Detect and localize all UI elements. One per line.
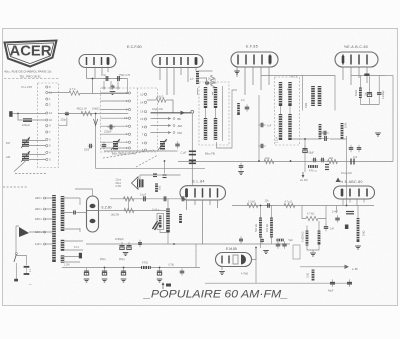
- wire det leg c: [378, 76, 380, 105]
- tuner block pin 4 column A: [126, 140, 131, 144]
- resistor 4.7uF: [284, 203, 295, 207]
- wire mains lead: [15, 226, 17, 253]
- junction circle thick line end: [191, 110, 194, 113]
- wire antenna to switch pin 12: [13, 113, 46, 115]
- wire top pins up: [104, 81, 118, 87]
- wire triode pin leads: [87, 67, 109, 79]
- resistor IF decoupling: [237, 103, 240, 115]
- capacitor heater mid tap: [72, 211, 77, 215]
- capacitor filter 50uF a: [119, 242, 124, 250]
- junction B+ 1: [258, 160, 260, 162]
- wire AF caps bus: [261, 206, 272, 249]
- capacitor 50uF b: [121, 268, 126, 276]
- wire choke top: [167, 199, 169, 209]
- tuner box top pin c: [117, 87, 119, 89]
- wire can to bus: [160, 230, 168, 233]
- circle BF node: [173, 118, 175, 120]
- wire screen vertical: [258, 95, 260, 161]
- potentiometer 1M tone: [357, 218, 360, 242]
- capacitor det pair b: [320, 158, 326, 163]
- mains plug blob: [14, 279, 18, 282]
- resistor 2.2k AF: [247, 203, 258, 207]
- tuner block pin 5 column B: [142, 148, 147, 152]
- wire EM85 node down: [255, 248, 257, 284]
- tuner block pin 15 column B: [140, 117, 146, 121]
- junction bottom 2: [123, 267, 125, 269]
- thick bar EABC80 det: [342, 56, 345, 63]
- capacitor 5uF cathode: [84, 268, 89, 276]
- tuner block pin 16 column B: [140, 110, 146, 114]
- IF T2 secondary coil lower: [288, 114, 291, 140]
- wire EF85 pins down: [237, 68, 269, 96]
- thick bar EL84: [185, 189, 188, 197]
- tube V5 EZ80 rectifier: [87, 196, 99, 232]
- wire det vertical: [304, 139, 306, 172]
- resistor EM85 series: [277, 239, 285, 242]
- resistor 1M grid: [312, 270, 315, 281]
- tuner block dashed outline: [101, 88, 158, 152]
- capacitor OT node dark: [153, 174, 157, 177]
- capacitor EM85 b: [260, 237, 264, 245]
- resistor 1k 2W filter: [124, 208, 134, 212]
- capacitor 22nF AF: [335, 215, 340, 223]
- coil L1 antenna 100uH: [23, 118, 32, 122]
- wire tuner block feed y142.2: [101, 141, 129, 143]
- ground AF divider: [310, 253, 316, 256]
- ground EM85: [219, 272, 225, 275]
- wire right edge vertical: [392, 76, 394, 162]
- wire pentode to IF T1: [196, 78, 207, 85]
- capacitor 1nF pair A: [349, 145, 354, 153]
- dashed slant under tuner block 2: [136, 155, 158, 167]
- capacitor cathode bypass 2: [161, 196, 169, 201]
- resistor 5.6 ohm: [156, 98, 166, 102]
- wire heater bus: [86, 243, 196, 245]
- wire pin to 5.6 ohm: [147, 99, 156, 101]
- switch S1 pin 7: [46, 130, 51, 134]
- fuse symbol dark: [19, 227, 29, 237]
- ground 1M pot: [355, 246, 361, 249]
- wire main AM line: [58, 113, 128, 115]
- tube V2 EF85 IF amplifier: [231, 52, 278, 67]
- arrow output FM: [151, 131, 172, 134]
- capacitor 220uF block: [107, 125, 115, 130]
- resistor 100k mid: [319, 124, 322, 139]
- resistor EL84 cathode bar: [179, 214, 182, 223]
- arrow above title: [162, 283, 164, 289]
- junction main line: [95, 113, 97, 115]
- wire IF T1 inner link: [206, 86, 223, 141]
- ACER logo: [5, 41, 57, 67]
- tuner block pin 14 column B: [140, 100, 146, 104]
- wire pentode top link: [198, 71, 213, 95]
- switch S1 pin 4: [46, 151, 51, 155]
- wire B+ rail: [178, 161, 393, 163]
- wire IF1 to EF85 grid: [217, 90, 238, 148]
- capacitor 50pF dark: [346, 212, 354, 214]
- wire IF feed line thick: [151, 112, 192, 114]
- thick bar EABC80 AF: [341, 189, 344, 196]
- wire EF85 plate right: [261, 75, 303, 77]
- ground under pots: [263, 251, 269, 254]
- IF transformer T2 dashed box: [275, 77, 300, 145]
- power transformer heater winding 1: [61, 240, 65, 251]
- wire tuner block feed y126.2: [101, 125, 129, 127]
- tuner block pin 5 column A: [126, 108, 131, 112]
- tube V3b EABC80 AF triode: [334, 186, 375, 199]
- dashed chassis line left 2: [3, 186, 27, 188]
- switch S1 pin 2: [46, 103, 51, 107]
- capacitor near EL84 left dark: [163, 175, 167, 178]
- ground under triode: [110, 92, 116, 95]
- resistor 45ohm: [81, 111, 92, 115]
- electrolytic can outline: [157, 214, 164, 230]
- junction bottom 3: [159, 267, 161, 269]
- switch S1 pin 1: [46, 97, 51, 101]
- coil L3 AM antenna: [22, 154, 29, 162]
- resistor det series: [308, 165, 318, 168]
- wire transformer tap 240 v: [46, 197, 53, 199]
- switch S1 pin 5: [46, 144, 51, 148]
- capacitor tuner bypass 2: [175, 141, 180, 149]
- capacitor IF decoupling: [245, 104, 250, 112]
- terminal circle tap 180 v: [44, 218, 46, 220]
- wire transformer tap 120 v: [46, 231, 53, 233]
- wire pin 11 to R 2.7k: [48, 92, 69, 94]
- IF T1 primary coil lower: [204, 118, 207, 140]
- wire antenna drop to coil: [18, 114, 23, 121]
- switch S1 pin 6: [46, 138, 51, 142]
- electrolytic can stripes: [159, 216, 162, 228]
- capacitor 220uF det: [322, 136, 330, 141]
- capacitor 50uF a: [102, 268, 107, 276]
- circle FM node: [173, 132, 175, 134]
- capacitor 40nF bottom a: [330, 279, 335, 287]
- junction AF row 1: [346, 205, 348, 207]
- wire EM85 cathode down: [221, 267, 223, 271]
- junction B+ 2: [290, 160, 292, 162]
- power transformer HV secondary: [61, 196, 65, 231]
- arrow trimmer 2: [158, 139, 167, 150]
- trimmer dark component: [113, 141, 118, 150]
- wire transformer tap 180 v: [46, 218, 53, 220]
- logo phone line: [4, 78, 59, 80]
- junction triode cathode: [92, 78, 94, 80]
- capacitor x346 blob: [345, 225, 349, 230]
- wire EM85 top bus: [196, 243, 290, 245]
- junction screen rail: [164, 160, 166, 162]
- junction bottom 1: [104, 267, 106, 269]
- wire tuner solid left edge: [96, 114, 205, 169]
- wire EZ80 top to transformer: [75, 189, 93, 196]
- tuner block pin 7 column A: [126, 124, 131, 128]
- wire IF T1 top link: [207, 82, 217, 84]
- wire detector feed vertical: [191, 113, 193, 186]
- ratio detector coil b: [318, 86, 322, 106]
- IF T2 primary coil upper: [279, 82, 282, 106]
- capacitor 10nF out: [180, 268, 185, 276]
- wire R 2.7k to triode: [80, 79, 128, 94]
- terminal circle tap 220 v: [44, 208, 46, 210]
- switch S1 pin 10: [46, 118, 53, 122]
- tube V1a ECF80 triode section: [79, 55, 116, 68]
- resistor 50k det leg: [359, 88, 362, 99]
- antenna input terminal: [9, 111, 12, 117]
- resistor 2.7k: [69, 91, 80, 95]
- capacitor 1nF pair B: [357, 145, 362, 153]
- wire 2x500k links: [307, 221, 319, 252]
- wire AF row drop 1: [302, 206, 306, 219]
- tuner box top pin a: [103, 87, 105, 89]
- tuner block pin 6 column A: [126, 146, 131, 150]
- thick anode bar ECF80 pentode: [195, 58, 198, 65]
- diode detector V arrow: [94, 119, 98, 126]
- capacitor screen bypass 1: [258, 123, 266, 128]
- wire L2 to pin 6: [29, 141, 46, 146]
- tuner block pin 9 column A: [126, 132, 131, 136]
- switch block S1 dashed outline: [38, 83, 59, 168]
- capacitor cathode bypass: [141, 196, 149, 201]
- capacitor 40nF bottom b: [347, 279, 352, 287]
- wire screen node up to rail: [164, 161, 166, 174]
- ground rail cap: [238, 172, 244, 175]
- resistor 50ohm screen: [155, 183, 158, 192]
- tuner block pin 6 column B: [142, 141, 147, 145]
- wire choke bottom to heater bus: [167, 233, 169, 245]
- wire pentode pin leads: [160, 67, 196, 96]
- switch S1 pin 3: [46, 158, 51, 162]
- output transformer T3: [137, 179, 144, 187]
- tube V3a EABC80 detector section: [335, 52, 378, 67]
- junction EM85 node: [255, 247, 257, 249]
- resistor pentode anode load: [211, 75, 215, 88]
- capacitor tuner bypass 1: [102, 142, 107, 150]
- resistor 100k AF: [270, 218, 273, 238]
- capacitor 22nF right: [321, 131, 329, 136]
- capacitor 12k coupling: [265, 203, 273, 208]
- tuner block pin 13 column A: [124, 116, 130, 120]
- wire triode cathode row: [87, 78, 128, 80]
- capacitor filter 50uF b: [126, 242, 131, 250]
- wire transformer tap 220 v: [46, 208, 53, 210]
- ratio detector frame: [303, 76, 336, 111]
- dashed chassis line left: [15, 173, 46, 175]
- junction rail left: [191, 161, 193, 163]
- capacitor 40nF AF b: [282, 241, 287, 249]
- arrow output AM: [151, 124, 172, 127]
- arrow through L2: [21, 137, 30, 148]
- resistor 2x500k a: [306, 231, 309, 246]
- capacitor screen bypass 2: [258, 144, 266, 149]
- capacitor mains filter: [24, 267, 30, 274]
- wire tuner block feed y109.5: [101, 109, 129, 111]
- IF T2 secondary coil upper: [288, 82, 291, 106]
- wire EZ80 output right: [99, 210, 167, 212]
- tuner box top pin b: [110, 87, 112, 89]
- wire bottom right rail: [205, 282, 352, 284]
- capacitor det pair a: [312, 158, 318, 163]
- capacitor 220p padding: [65, 111, 69, 116]
- capacitor heater bypass: [138, 240, 142, 248]
- capacitor 68uF det: [302, 145, 307, 153]
- wire AF out: [300, 266, 346, 268]
- coil L2 FM antenna: [22, 140, 29, 148]
- junction heater 1: [139, 243, 141, 245]
- capacitor 47pF triode: [103, 76, 111, 81]
- wire ratio det to AF: [346, 136, 348, 206]
- ground 50uF a: [102, 279, 108, 282]
- wire det leg a: [359, 76, 361, 105]
- wire AF row drop 2: [318, 206, 326, 226]
- capacitor 470 dark: [325, 165, 329, 170]
- capacitor EM85 a: [239, 236, 243, 244]
- capacitor 0.1uF rail: [239, 163, 244, 171]
- IF transformer T1 dashed box: [199, 82, 229, 145]
- tuner block pin 10 column B: [140, 92, 146, 96]
- wire 1M pot to row: [357, 206, 359, 219]
- arrow small AF takeoff: [336, 178, 341, 183]
- wire tuner block feed y134.2: [101, 133, 129, 135]
- capacitor cathode bypass 3: [179, 196, 187, 201]
- wire det bottom link: [360, 104, 379, 106]
- tube V1b ECF80 pentode section: [152, 55, 203, 68]
- terminal circle tap 240 v: [44, 197, 46, 199]
- resistor 100k right: [341, 123, 344, 139]
- resistor 470 ohm: [141, 266, 151, 269]
- junction antenna node: [17, 113, 19, 115]
- tuner block pin 2 column A: [126, 91, 131, 95]
- arrow trimmer 1: [111, 139, 120, 150]
- wire EL84 cathode line: [110, 198, 185, 200]
- wire pin 10 to coil: [32, 119, 46, 121]
- capacitor C1 coupling dark: [189, 151, 196, 154]
- switch S1 pin 8: [46, 85, 51, 89]
- resistor screen pentode: [196, 71, 199, 84]
- capacitor to ground mid: [111, 84, 115, 90]
- wire EABC80 pins down: [343, 68, 367, 86]
- wire EL84 pins down: [187, 200, 218, 244]
- capacitor 2x16uF wedge: [153, 221, 160, 230]
- wire det top link: [351, 75, 385, 77]
- speaker symbol: [132, 177, 139, 189]
- mains switch: [15, 253, 17, 255]
- IF T1 secondary coil lower: [214, 118, 217, 140]
- potentiometer 500k volume: [259, 218, 262, 238]
- resistor 1k B+ rail 2: [328, 159, 338, 163]
- arrow through L3: [21, 151, 30, 162]
- wire fuse to transformer: [16, 226, 45, 232]
- tuner block pin 8 column B: [142, 125, 147, 129]
- capacitor bypass c: [157, 268, 162, 276]
- wire tuner block feed y148: [101, 147, 129, 149]
- ground bypass c: [157, 279, 163, 282]
- ground filter caps: [123, 253, 129, 256]
- capacitor 16uF: [367, 89, 372, 97]
- capacitor 40nF AF a: [276, 241, 281, 249]
- resistor 180ohm 1W cathode: [123, 197, 134, 201]
- dashed slant under tuner block: [103, 150, 154, 158]
- rect trimmer box right: [293, 245, 300, 259]
- tuner block dashed divider: [137, 88, 139, 152]
- component dark on det wire: [364, 74, 369, 76]
- trimmer dark component 2: [160, 141, 165, 150]
- wire switch node to cap: [16, 256, 26, 266]
- resistor 1k B+ rail: [264, 159, 274, 163]
- junction AF row 2: [260, 205, 262, 207]
- ground 50uF b: [121, 279, 127, 282]
- capacitor 2200 on left edge: [88, 144, 94, 149]
- wire L3 to pin 4: [29, 155, 46, 160]
- wire AF row: [232, 205, 374, 207]
- switch S1 pin 11: [46, 91, 53, 95]
- wire 5.6 to IF1: [166, 100, 173, 113]
- ground under EF85: [234, 71, 240, 74]
- wire transformer tap 110 v: [46, 243, 53, 245]
- wire transformer secondary taps: [65, 198, 87, 262]
- wire row down to grid line: [127, 79, 129, 94]
- ground right section: [375, 133, 381, 136]
- IF T1 secondary coil upper: [214, 87, 217, 108]
- wire EZ80 heater taps: [79, 198, 81, 232]
- tuner block pin 1 column A: [126, 99, 131, 103]
- arrow output BF: [151, 117, 172, 120]
- wire tuner bottom bus: [104, 150, 178, 152]
- capacitor on rail dark: [351, 159, 354, 165]
- capacitor 1nF AF: [324, 224, 329, 232]
- dark blob above title: [166, 284, 171, 287]
- wire OT top to node: [140, 175, 181, 179]
- wire tuner block feed y118.2: [101, 117, 129, 119]
- capacitor 75pF: [115, 76, 123, 81]
- wire IF2 out right: [292, 138, 347, 140]
- ratio detector coil a: [311, 86, 315, 106]
- capacitor C2 dark below rail: [189, 160, 196, 163]
- wire EM85 right link: [252, 248, 257, 260]
- arrowhead IF feed: [181, 111, 186, 115]
- wire right top link: [385, 75, 393, 77]
- thick anode bar ECF80 triode: [107, 58, 110, 65]
- ground 86: [84, 279, 90, 282]
- wire tuner block feed y93: [101, 92, 129, 94]
- wire AF row drop 3: [336, 206, 338, 214]
- wire AF bottom rail: [62, 267, 200, 269]
- capacitor 2200pF right: [377, 91, 382, 96]
- switch S1 pin 12: [46, 111, 53, 115]
- power transformer primary: [52, 195, 56, 262]
- thick anode bar EF85: [269, 56, 272, 64]
- capacitor pentode bypass: [205, 80, 209, 86]
- switch S1 pin 9: [46, 124, 51, 128]
- junction heater 2: [173, 243, 175, 245]
- wire 220p to pin 9: [59, 118, 67, 126]
- wire cathode to EZ80 link: [128, 199, 130, 211]
- tuner block pin 7 column B: [142, 133, 147, 137]
- tube V6 EM85 tuning eye: [216, 253, 252, 267]
- resistor 2x500k b: [318, 231, 321, 245]
- terminal circle tap 110 v: [44, 243, 46, 245]
- dark component heater: [79, 253, 82, 259]
- arrow AF out head: [345, 265, 350, 269]
- wire L3 down lead: [14, 161, 26, 172]
- circle AM node: [173, 125, 175, 127]
- junction det: [304, 138, 306, 140]
- wire heater bus to bottom rail: [195, 244, 197, 268]
- IF T1 primary coil upper: [204, 87, 207, 108]
- IF T2 primary coil lower: [279, 114, 282, 140]
- filter choke L4: [166, 209, 170, 233]
- arrow det down: [302, 172, 304, 176]
- wire IF T2 inner link: [281, 106, 291, 114]
